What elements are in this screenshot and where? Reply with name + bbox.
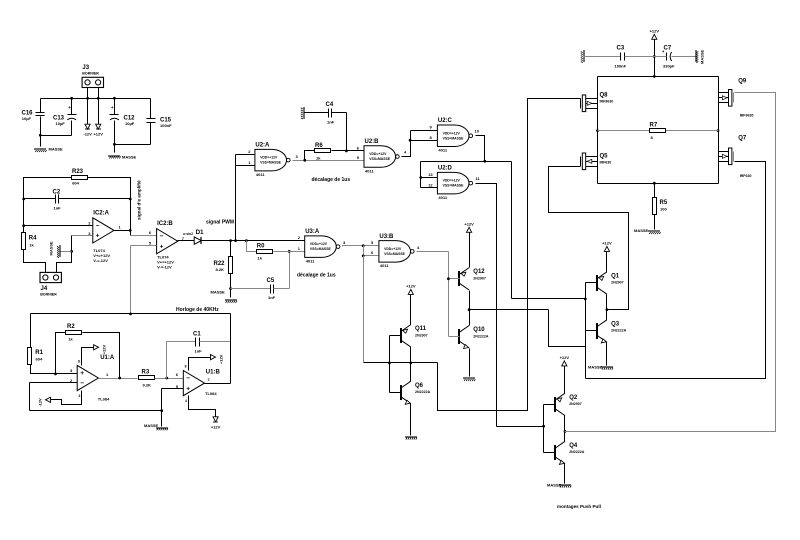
label MASSE vertical — [49, 241, 54, 256]
wire Q3 emitter down — [606, 343, 608, 366]
svg-text:2: 2 — [248, 149, 251, 154]
power +12V right arrow U1A — [94, 345, 107, 355]
wire +12V to C3 C7 node — [654, 40, 656, 77]
svg-text:U1:A: U1:A — [100, 355, 115, 361]
svg-text:VDD=+12V: VDD=+12V — [260, 156, 278, 160]
svg-text:8: 8 — [185, 365, 187, 369]
svg-text:+: + — [160, 244, 164, 251]
node IC2A out junction — [129, 229, 132, 232]
node C12 top junction — [113, 97, 116, 100]
power -12V arrow — [83, 124, 92, 137]
wire Q2 Q4 out to Q9 gate — [565, 93, 776, 432]
svg-text:BORNIER: BORNIER — [40, 293, 57, 297]
power +12V arrow — [93, 124, 103, 137]
node C3 C7 junction — [653, 55, 656, 58]
NAND gate U3:B — [379, 234, 414, 268]
wire Q1 emitter up — [606, 252, 608, 272]
wire Q12 collector down — [469, 291, 471, 310]
resistor R22 — [214, 257, 233, 274]
wire C3 left — [584, 56, 621, 58]
svg-text:9: 9 — [430, 125, 433, 130]
svg-text:+: + — [68, 105, 71, 110]
svg-text:1: 1 — [119, 225, 122, 230]
svg-text:C4: C4 — [326, 102, 334, 108]
node Q12 base junction — [447, 277, 450, 280]
svg-text:6: 6 — [357, 145, 360, 150]
svg-text:C2: C2 — [53, 190, 61, 196]
label decalage top — [312, 177, 351, 183]
wire R0 left leg — [247, 241, 257, 252]
wire U2C pin8 stub — [411, 140, 438, 142]
wire Q6 base stub — [390, 392, 401, 394]
capacitor C16 — [22, 111, 45, 122]
pin 2 — [70, 378, 73, 383]
wire C1 left — [167, 341, 196, 343]
wire IC2A out to IC2B pin6 — [131, 235, 157, 237]
ground under C12 — [108, 155, 137, 160]
svg-text:VDD=+12V: VDD=+12V — [443, 179, 461, 183]
svg-text:J3: J3 — [82, 65, 89, 71]
connector J3 — [82, 65, 103, 88]
svg-text:3: 3 — [70, 368, 73, 373]
wire R23 right — [88, 178, 131, 236]
label TL084 under U1B — [205, 391, 217, 396]
node C2 left junction — [22, 198, 25, 201]
svg-text:+12V: +12V — [93, 132, 103, 137]
svg-text:V-=-12V: V-=-12V — [157, 264, 172, 269]
svg-text:VSS=MASSE: VSS=MASSE — [260, 161, 282, 165]
pin 6 — [176, 372, 179, 377]
svg-text:12: 12 — [428, 182, 433, 187]
node R0 junction — [245, 239, 248, 242]
ground left of C4 — [301, 107, 304, 119]
transistor Q6 — [401, 381, 431, 404]
resistor R0 — [257, 243, 273, 260]
wire C12 top lead — [114, 99, 116, 115]
svg-text:Q12: Q12 — [473, 269, 485, 275]
svg-text:2N2222A: 2N2222A — [473, 334, 489, 338]
wire R22 top — [230, 241, 232, 257]
svg-text:5: 5 — [371, 240, 374, 245]
wire R6 left leg — [305, 151, 315, 161]
wire C4 down — [346, 113, 348, 151]
wire U2A out to U2B pin5 — [293, 160, 365, 162]
capacitor C7 — [662, 46, 675, 69]
ground under Q6 — [405, 437, 417, 440]
label signal amplifie vertical — [137, 180, 142, 220]
wire Q4 emitter down — [564, 464, 566, 484]
wire pin5 down to oscillator — [130, 246, 132, 314]
power +12V above Q12 — [464, 222, 474, 233]
svg-text:R5: R5 — [660, 200, 668, 206]
wire Q11 Q6 rail — [364, 362, 438, 364]
svg-text:VSS=MASSE: VSS=MASSE — [443, 184, 465, 188]
wire C13 to C16 bottom — [41, 135, 72, 137]
svg-text:1k: 1k — [29, 243, 34, 248]
power +12V above Q1 — [602, 241, 612, 252]
svg-text:BORNIER: BORNIER — [82, 72, 99, 76]
wire Q2 emitter up — [564, 366, 566, 394]
transistor Q4 — [555, 441, 585, 464]
svg-text:TL084: TL084 — [98, 397, 110, 402]
node pin5 bottom junction — [160, 409, 163, 412]
svg-text:IRF9630: IRF9630 — [740, 113, 754, 117]
pin 8 — [78, 360, 80, 364]
node PWM junction — [234, 239, 237, 242]
wire U1A V- pin — [51, 391, 82, 405]
wire U2B out — [402, 131, 411, 157]
wire oscillator right rail — [230, 314, 232, 384]
svg-text:4: 4 — [417, 245, 420, 250]
svg-text:604: 604 — [36, 357, 43, 362]
capacitor C4 — [326, 102, 335, 125]
svg-text:Q11: Q11 — [415, 326, 427, 332]
svg-text:U3:B: U3:B — [379, 234, 394, 240]
svg-text:U1:B: U1:B — [206, 370, 221, 376]
wire IC2A pin2 — [24, 225, 93, 227]
wire to -12V arrow — [87, 99, 89, 125]
svg-text:VDD=+12V: VDD=+12V — [443, 131, 461, 135]
wire Q11 Q6 base tie — [389, 336, 391, 393]
wire U2D out to Q2 Q4 bases — [497, 426, 544, 428]
svg-text:+12V: +12V — [406, 284, 416, 289]
wire to +12V arrow — [98, 99, 100, 125]
svg-text:2N2222A: 2N2222A — [611, 329, 627, 333]
wire R4 top — [23, 226, 25, 233]
node R6 left junction — [303, 159, 306, 162]
node U2D input junction — [419, 176, 422, 179]
svg-text:MASSE: MASSE — [144, 423, 159, 428]
wire R23 left — [24, 178, 72, 233]
pin 3 — [70, 368, 73, 373]
power +12V down arrow U1B — [211, 417, 221, 430]
wire pin5 left leg — [161, 389, 163, 411]
wire IC2B out to D1 — [178, 240, 195, 242]
wire base node to Q7 gate — [586, 162, 766, 379]
svg-text:4011: 4011 — [380, 263, 389, 268]
node C13 top junction — [70, 97, 73, 100]
ground bottom rail — [144, 423, 168, 430]
wire Q11 collector down — [410, 347, 412, 363]
power +12V right arrow U1B — [211, 354, 224, 364]
capacitor C15 — [147, 118, 173, 129]
svg-text:2N2907: 2N2907 — [415, 333, 428, 337]
pin 7 — [182, 236, 185, 241]
node pin5 feed junction — [129, 313, 132, 316]
pin 1 — [298, 246, 301, 251]
svg-text:−: − — [80, 380, 84, 387]
svg-text:13: 13 — [428, 172, 433, 177]
wire C13 top lead — [71, 99, 73, 115]
wire U1B out — [205, 383, 231, 385]
svg-text:MASSE: MASSE — [547, 483, 562, 488]
wire bottom to R5 — [654, 184, 656, 199]
svg-text:VDD=+12V: VDD=+12V — [369, 152, 387, 156]
resistor R3 — [139, 370, 155, 388]
wire C12 bottom lead — [114, 121, 116, 153]
svg-text:IC2:A: IC2:A — [93, 210, 109, 216]
svg-text:1: 1 — [106, 372, 109, 377]
svg-text:-12V: -12V — [38, 398, 43, 407]
wire U3B out down to Q12 Q10 bases — [448, 252, 450, 337]
node R2 left junction — [54, 373, 57, 376]
wire Q10 base stub — [449, 336, 460, 338]
wire R3 to U1B pin6 — [155, 378, 184, 380]
wire C3 right — [625, 56, 655, 58]
pin 4 — [79, 394, 81, 398]
capacitor C3 — [615, 46, 627, 69]
wire Q12 emitter up — [469, 233, 471, 268]
wire R6 right to U2B pin6 — [332, 150, 365, 152]
wire U2D pin12 stub — [421, 187, 438, 189]
node U2C input junction — [409, 139, 412, 142]
wire Q6 collector up — [410, 363, 412, 382]
wire Q1 Q3 base tie — [585, 283, 587, 379]
wire R2 right leg — [83, 333, 120, 378]
svg-text:VSS=MASSE: VSS=MASSE — [369, 157, 391, 161]
node pin2 left junction — [22, 224, 25, 227]
svg-text:signal d'e amplifié: signal d'e amplifié — [137, 180, 142, 220]
pin 4 — [404, 150, 407, 155]
svg-text:U2:D: U2:D — [438, 166, 453, 172]
svg-text:Q4: Q4 — [569, 443, 578, 449]
pin 5 — [149, 241, 152, 246]
svg-text:8: 8 — [78, 360, 80, 364]
pin 5 — [176, 384, 179, 389]
svg-text:VDD=+12V: VDD=+12V — [384, 247, 402, 251]
svg-text:+12V: +12V — [602, 241, 612, 246]
wire R22 bottom — [230, 274, 232, 298]
svg-text:8.2K: 8.2K — [216, 267, 225, 272]
svg-text:C3: C3 — [617, 46, 625, 52]
pin 6 — [149, 230, 152, 235]
wire C2 right — [59, 198, 131, 200]
svg-text:Horloge de 40KHz: Horloge de 40KHz — [176, 307, 219, 313]
wire +12V bus — [41, 98, 151, 100]
svg-text:signal PWM: signal PWM — [206, 220, 234, 226]
wire U2A input tie short — [235, 155, 237, 166]
NAND gate U3:A — [305, 229, 340, 263]
label MASSE vertical right of C7 — [700, 49, 705, 64]
svg-text:+12V: +12V — [211, 424, 221, 429]
pin 1 — [119, 225, 122, 230]
svg-text:100: 100 — [660, 207, 667, 212]
pin 12 — [428, 182, 433, 187]
svg-text:+: + — [96, 233, 100, 240]
wire Q11 Q6 out to Q8 gate — [438, 99, 581, 411]
ground under Q3 — [588, 365, 613, 370]
svg-text:1nF: 1nF — [268, 295, 276, 300]
svg-text:11: 11 — [476, 176, 481, 181]
wire IC2B pin5 — [131, 245, 157, 247]
svg-text:VSS=MASSE: VSS=MASSE — [443, 136, 465, 140]
pin 2 — [248, 149, 251, 154]
wire Q2 base stub — [544, 404, 556, 406]
ground under Q4 — [547, 483, 571, 488]
transistor Q3 — [597, 320, 627, 343]
wire Q4 collector up — [564, 432, 566, 442]
svg-text:U3:A: U3:A — [305, 229, 320, 235]
svg-text:MASSE: MASSE — [700, 49, 705, 64]
wire C5 right — [274, 288, 290, 290]
wire U2A pin1 stub — [236, 165, 255, 167]
svg-text:10: 10 — [475, 129, 480, 134]
svg-text:MASSE: MASSE — [122, 155, 137, 160]
label TL084 under U1A — [98, 397, 110, 402]
wire bottom rail to ground — [161, 411, 163, 427]
svg-text:10µF: 10µF — [22, 116, 32, 121]
label decalage bottom — [297, 273, 336, 279]
svg-text:7: 7 — [208, 377, 211, 382]
svg-text:+: + — [186, 385, 190, 392]
svg-text:3: 3 — [296, 154, 299, 159]
diode D1 — [194, 230, 204, 244]
pin 3 — [88, 231, 91, 236]
svg-text:2N2907: 2N2907 — [611, 281, 624, 285]
node bridge right mid — [717, 129, 720, 132]
wire U1A pin2 — [30, 382, 78, 384]
node Q11 Q6 output junction — [409, 362, 412, 365]
svg-text:+12V: +12V — [219, 354, 224, 364]
node U3A out junction — [362, 244, 365, 247]
ground under Q10 — [463, 378, 475, 381]
wire U1B V- pin — [189, 396, 216, 417]
svg-text:604: 604 — [72, 181, 79, 186]
node C1 junction — [165, 377, 168, 380]
pin 5 — [357, 155, 360, 160]
svg-text:U2:A: U2:A — [255, 143, 270, 149]
svg-text:IC2:B: IC2:B — [157, 221, 173, 227]
node bridge bottom center — [653, 182, 656, 185]
svg-text:+: + — [111, 105, 114, 110]
svg-text:9.2K: 9.2K — [143, 382, 152, 387]
svg-text:U2:B: U2:B — [365, 139, 380, 145]
wire U2D input tie — [420, 162, 422, 188]
svg-text:4011: 4011 — [306, 258, 315, 263]
svg-text:1k: 1k — [258, 256, 263, 261]
wire C16 bottom lead — [40, 117, 42, 147]
pin 3 — [296, 154, 299, 159]
wire Q2 Q4 base tie — [543, 405, 545, 453]
node J3 pin2 junction — [97, 97, 100, 100]
wire C5 up to R0 right — [289, 252, 291, 289]
pin 1 — [248, 160, 251, 165]
wire C4 left — [304, 112, 329, 114]
wire U2C out down — [511, 162, 513, 299]
wire R7 rail — [598, 130, 719, 132]
connector J4 — [40, 272, 61, 296]
resistor R7 — [650, 122, 666, 140]
wire C4 right — [332, 112, 347, 114]
svg-text:3: 3 — [343, 240, 346, 245]
wire C13 bottom lead — [71, 121, 73, 136]
label signal PWM — [206, 220, 234, 226]
wire U2C out — [476, 136, 485, 162]
pin 5 — [371, 240, 374, 245]
svg-text:C1: C1 — [193, 331, 201, 337]
svg-text:8: 8 — [430, 135, 433, 140]
node C12-C15 bottom junction — [113, 143, 116, 146]
wire Q10 emitter down — [469, 349, 471, 377]
node Q1 Q3 output junction — [606, 308, 609, 311]
svg-text:100nF: 100nF — [160, 123, 172, 128]
wire Q2 collector down — [564, 416, 566, 432]
svg-text:VSS=MASSE: VSS=MASSE — [310, 247, 332, 251]
wire C1 right — [200, 341, 231, 343]
wire C15 to C12 bottom — [115, 144, 151, 146]
svg-text:2N2222A: 2N2222A — [415, 390, 431, 394]
pin 4 — [417, 245, 420, 250]
node base tie junction — [388, 362, 391, 365]
svg-text:4011: 4011 — [256, 172, 265, 177]
svg-text:10µF: 10µF — [56, 121, 66, 126]
node U2C out junction — [483, 160, 486, 163]
transistor Q10 — [459, 326, 489, 349]
pin 2 — [88, 220, 91, 225]
wire U2D pin13 stub — [421, 177, 438, 179]
svg-text:MASSE: MASSE — [211, 290, 226, 295]
wire C15 top lead — [150, 99, 152, 119]
svg-text:décalage de 1us: décalage de 1us — [297, 273, 336, 279]
wire ground stub — [61, 251, 72, 253]
op-amp U1:B — [183, 370, 220, 396]
svg-text:1nF: 1nF — [195, 349, 203, 354]
svg-text:1: 1 — [248, 160, 251, 165]
wire U2C out to Q1 Q3 bases — [512, 298, 586, 300]
svg-text:VSS=MASSE: VSS=MASSE — [384, 252, 406, 256]
svg-text:TL084: TL084 — [205, 391, 217, 396]
wire C7 right — [672, 56, 696, 58]
svg-text:10µF: 10µF — [125, 121, 135, 126]
power +12V above Q2 — [560, 355, 570, 366]
power +12V bridge — [650, 29, 660, 40]
ground under C16 — [34, 147, 63, 153]
pin 2 — [298, 235, 301, 240]
label montages Push Pull — [557, 504, 601, 509]
svg-text:2: 2 — [298, 235, 301, 240]
label Horloge de 40KHz — [176, 307, 219, 313]
svg-text:Q3: Q3 — [611, 321, 620, 327]
svg-text:IRF630: IRF630 — [600, 161, 612, 165]
svg-text:2N2222A: 2N2222A — [569, 450, 585, 454]
wire pin3 to ground link — [57, 236, 72, 273]
node U3B lower in junction — [362, 255, 365, 258]
svg-text:5: 5 — [357, 155, 360, 160]
wire Q12 base stub — [449, 278, 460, 280]
MOSFET Q8 — [581, 92, 614, 111]
wire bridge right vertical — [718, 77, 720, 184]
wire IC2A output — [114, 230, 131, 232]
svg-text:2N2907: 2N2907 — [473, 276, 486, 280]
capacitor C1 — [193, 331, 202, 353]
wire Q1 collector down — [606, 295, 608, 310]
node J3 pin1 junction — [86, 97, 89, 100]
capacitor C5 — [267, 278, 276, 300]
pin 6 — [357, 145, 360, 150]
pin 3 — [343, 240, 346, 245]
wire U2D out — [476, 184, 497, 427]
wire U2C out rail — [421, 161, 512, 163]
wire U1B V+ pin — [189, 358, 211, 371]
op-amp IC2:A — [93, 210, 114, 263]
wire bridge top rail — [598, 76, 719, 78]
svg-text:+12V: +12V — [102, 345, 107, 355]
NAND gate U2:A — [255, 143, 290, 177]
pin 9 — [430, 125, 433, 130]
wire Q11 base stub — [390, 335, 401, 337]
svg-text:+12V: +12V — [464, 222, 474, 227]
op-amp U1:A — [77, 355, 115, 391]
